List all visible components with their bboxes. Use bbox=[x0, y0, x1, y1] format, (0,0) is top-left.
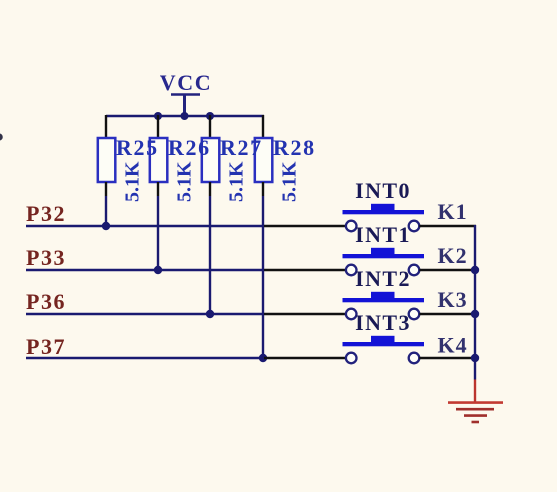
node junction dot R27-P36 bbox=[206, 310, 214, 318]
switch S1 button cap bbox=[371, 204, 395, 210]
wire K2 bbox=[419, 269, 476, 271]
svg-text:R25: R25 bbox=[116, 135, 159, 160]
switch S4 left contact bbox=[346, 353, 357, 364]
wire ground stem upper bbox=[474, 358, 476, 380]
svg-text:5.1K: 5.1K bbox=[122, 161, 144, 202]
pin R25 top bbox=[105, 115, 107, 138]
resistor R26 body bbox=[150, 138, 168, 182]
svg-text:5.1K: 5.1K bbox=[174, 161, 196, 202]
svg-text:P33: P33 bbox=[26, 245, 66, 270]
switch S2 button bar bbox=[343, 254, 425, 258]
ground GND bar 3 bbox=[464, 414, 487, 417]
svg-text:5.1K: 5.1K bbox=[226, 161, 248, 202]
switch S4 button cap bbox=[371, 336, 395, 342]
switch S3 right contact bbox=[409, 309, 420, 320]
wire R25 to P32 bbox=[105, 196, 107, 226]
svg-text:K3: K3 bbox=[438, 287, 468, 312]
wire P37 bbox=[26, 357, 264, 359]
node junction dot K2 bus bbox=[471, 266, 479, 274]
wire P36 to K3 bbox=[264, 313, 346, 315]
ground GND bar 4 bbox=[472, 421, 480, 424]
ground GND bar 1 bbox=[448, 401, 503, 404]
wire VCC stem bbox=[183, 95, 186, 116]
switch S1 right contact bbox=[409, 221, 420, 232]
svg-text:INT1: INT1 bbox=[355, 222, 411, 247]
svg-text:K2: K2 bbox=[438, 243, 468, 268]
node junction dot K3 bus bbox=[471, 310, 479, 318]
switch S3 button cap bbox=[371, 292, 395, 298]
node junction dot R25-P32 bbox=[102, 222, 110, 230]
node junction dot bus R26 bbox=[154, 112, 162, 120]
svg-text:5.1K: 5.1K bbox=[279, 161, 301, 202]
pin R26 top bbox=[157, 115, 159, 138]
node junction dot R26-P33 bbox=[154, 266, 162, 274]
svg-text:R26: R26 bbox=[168, 135, 211, 160]
node junction dot K4 bus bbox=[471, 354, 479, 362]
pin R27 top bbox=[209, 115, 211, 138]
svg-text:INT2: INT2 bbox=[355, 266, 411, 291]
wire P32 bbox=[26, 225, 264, 227]
node junction dot bus VCC bbox=[181, 112, 189, 120]
node junction dot bus R27 bbox=[206, 112, 214, 120]
svg-text:P37: P37 bbox=[26, 334, 66, 359]
wire P37 to K4 bbox=[264, 357, 346, 359]
resistor R27 body bbox=[202, 138, 220, 182]
switch S3 left contact bbox=[346, 309, 357, 320]
wire right bus bbox=[474, 225, 476, 358]
pin R27 bottom bbox=[209, 182, 211, 196]
wire P32 to K1 bbox=[264, 225, 346, 227]
wire K1 bbox=[419, 225, 476, 227]
svg-text:P32: P32 bbox=[26, 201, 66, 226]
switch S1 button bar bbox=[343, 210, 425, 214]
wire P33 bbox=[26, 269, 264, 271]
pin R26 bottom bbox=[157, 182, 159, 196]
wire K4 bbox=[419, 357, 476, 359]
wire R26 to P33 bbox=[157, 196, 159, 270]
wire ground stem lower bbox=[474, 380, 476, 403]
wire K3 bbox=[419, 313, 476, 315]
switch S2 button cap bbox=[371, 248, 395, 254]
resistor R28 body bbox=[255, 138, 272, 182]
node cropped junction at left edge bbox=[0, 133, 3, 140]
switch S4 right contact bbox=[409, 353, 420, 364]
switch S2 right contact bbox=[409, 265, 420, 276]
switch S2 left contact bbox=[346, 265, 357, 276]
svg-text:K1: K1 bbox=[438, 199, 468, 224]
svg-text:P36: P36 bbox=[26, 289, 66, 314]
switch S1 left contact bbox=[346, 221, 357, 232]
svg-text:VCC: VCC bbox=[160, 70, 212, 95]
wire R28 to P37 bbox=[262, 196, 264, 358]
pin R25 bottom bbox=[105, 182, 107, 196]
svg-text:R27: R27 bbox=[220, 135, 263, 160]
svg-text:INT3: INT3 bbox=[355, 310, 411, 335]
node junction dot R28-P37 bbox=[259, 354, 267, 362]
ground GND bar 2 bbox=[456, 408, 494, 411]
switch S3 button bar bbox=[343, 298, 425, 302]
wire R27 to P36 bbox=[209, 196, 211, 314]
svg-text:K4: K4 bbox=[438, 333, 468, 358]
resistor R25 body bbox=[98, 138, 116, 182]
pin R28 top bbox=[262, 115, 264, 138]
wire top bus bbox=[106, 115, 264, 117]
switch S4 button bar bbox=[343, 342, 425, 346]
power VCC bar symbol bbox=[171, 93, 200, 96]
svg-text:INT0: INT0 bbox=[355, 178, 411, 203]
pin R28 bottom bbox=[262, 182, 264, 196]
wire P36 bbox=[26, 313, 264, 315]
wire P33 to K2 bbox=[264, 269, 346, 271]
svg-text:R28: R28 bbox=[273, 135, 316, 160]
